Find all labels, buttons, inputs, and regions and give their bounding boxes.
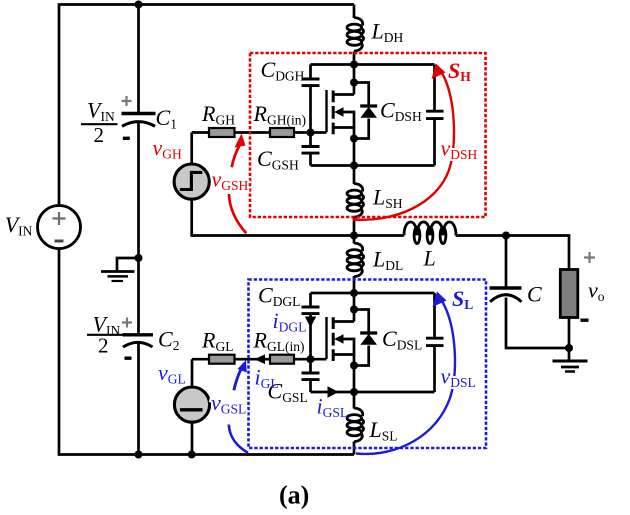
- svg-text:(a): (a): [279, 481, 309, 510]
- svg-text:2: 2: [98, 334, 109, 358]
- svg-text:L: L: [423, 246, 436, 271]
- svg-text:C: C: [527, 282, 542, 307]
- svg-text:2: 2: [94, 123, 105, 147]
